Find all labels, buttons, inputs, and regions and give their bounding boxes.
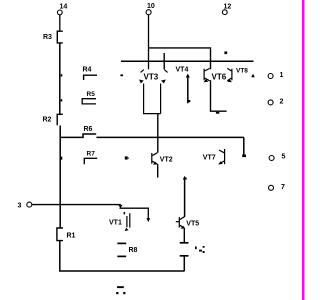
VT8 arrow xyxy=(251,74,255,77)
capacitor R8 plates xyxy=(117,243,126,256)
wire from terminal 3 xyxy=(32,204,121,206)
svg-text:14: 14 xyxy=(60,3,68,10)
resistor R3 xyxy=(57,31,63,43)
svg-text:10: 10 xyxy=(147,3,155,10)
wire VT6 collector corner xyxy=(211,80,227,111)
transistor VT6 xyxy=(204,68,232,80)
svg-text:12: 12 xyxy=(224,3,232,10)
transistor VT7 xyxy=(219,149,225,164)
transistor VT5 xyxy=(176,217,185,228)
terminal 5 xyxy=(269,156,274,161)
wire left rail lower xyxy=(60,241,185,271)
svg-text:R8: R8 xyxy=(129,247,138,254)
svg-text:5: 5 xyxy=(282,154,286,161)
svg-text:R1: R1 xyxy=(67,233,76,240)
svg-text:VT3: VT3 xyxy=(144,73,159,82)
junction dot xyxy=(120,74,123,76)
resistor R2 xyxy=(57,114,63,125)
terminal 2 xyxy=(268,100,273,105)
wire base bus to VT1 xyxy=(120,208,149,220)
svg-text:VT2: VT2 xyxy=(160,156,173,163)
transistor VT2 xyxy=(152,153,158,165)
wire VT3 to VT2 xyxy=(157,114,159,153)
resistor R9 plates xyxy=(180,243,189,256)
junction dot xyxy=(125,156,128,159)
R9 label marks xyxy=(195,247,197,250)
svg-text:R5: R5 xyxy=(87,91,96,98)
wire VT2 emitter xyxy=(157,164,159,177)
svg-text:VT7: VT7 xyxy=(203,154,216,161)
junction tick xyxy=(61,99,63,101)
terminal 12 xyxy=(222,10,227,15)
junction tick xyxy=(61,74,63,76)
svg-text:2: 2 xyxy=(280,99,284,106)
current arrow into VT5 xyxy=(184,177,186,217)
svg-text:VT5: VT5 xyxy=(186,221,199,228)
svg-text:3: 3 xyxy=(18,202,22,209)
svg-text:R6: R6 xyxy=(84,126,93,133)
svg-text:1: 1 xyxy=(280,72,284,79)
terminal 14 xyxy=(57,10,62,31)
svg-text:VT8: VT8 xyxy=(236,68,248,75)
bottom node 4 mark xyxy=(117,286,124,288)
wire left rail upper xyxy=(59,43,61,114)
junction tick xyxy=(61,157,63,160)
transistor VT3 xyxy=(141,70,168,114)
page edge line xyxy=(302,0,305,300)
svg-text:R3: R3 xyxy=(43,34,52,41)
svg-text:R7: R7 xyxy=(87,151,96,158)
junction dot under 12 xyxy=(224,51,227,54)
svg-text:R4: R4 xyxy=(83,67,92,74)
wire VT3 right collector xyxy=(163,53,165,69)
svg-text:VT6: VT6 xyxy=(212,72,227,81)
terminal 10 xyxy=(146,10,151,70)
wire to bottom rail xyxy=(183,256,185,271)
svg-text:R2: R2 xyxy=(43,117,52,124)
wire VT5 emitter xyxy=(183,228,185,243)
wire rail end drop xyxy=(243,137,245,155)
wire long rail with resistor R6 bump xyxy=(60,134,244,137)
terminal 7 xyxy=(269,185,274,190)
svg-text:VT1: VT1 xyxy=(109,220,122,227)
wire branch to VT6 xyxy=(149,48,211,69)
wire left rail middle xyxy=(59,126,61,229)
resistor R1 xyxy=(57,228,63,241)
wire supply rail xyxy=(121,60,254,62)
svg-text:7: 7 xyxy=(281,184,285,191)
terminal 1 xyxy=(268,74,273,79)
svg-text:VT4: VT4 xyxy=(176,66,189,73)
